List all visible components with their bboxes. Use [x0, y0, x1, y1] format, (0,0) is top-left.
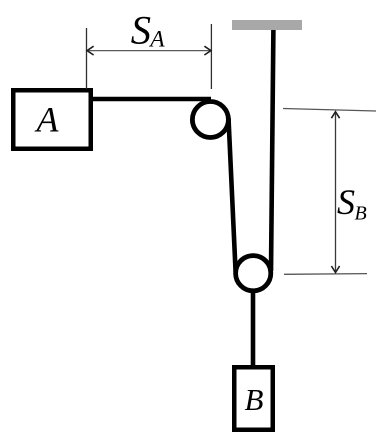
label S_B	[337, 182, 367, 225]
wire: rope from ceiling to lower pulley	[271, 30, 273, 271]
svg-text:S: S	[131, 8, 151, 53]
lower pulley	[236, 256, 271, 291]
svg-text:S: S	[337, 182, 355, 222]
svg-text:B: B	[245, 382, 264, 417]
dimension tick left (above block A)	[86, 28, 88, 89]
upper pulley	[192, 102, 228, 138]
wire: rope from lower pulley down to block B	[251, 290, 256, 367]
label S_A	[131, 8, 165, 53]
extension line bottom (for S_B)	[284, 273, 367, 276]
wire: rope from upper pulley down to lower pulley	[229, 118, 236, 272]
dimension tick right (above upper pulley)	[210, 24, 212, 89]
svg-text:B: B	[355, 203, 367, 225]
svg-text:A: A	[35, 100, 60, 140]
block A	[13, 90, 91, 149]
svg-text:A: A	[148, 26, 165, 52]
dimension arrow S_B (double-headed vertical)	[331, 112, 339, 273]
dimension arrow S_A (double-headed horizontal)	[87, 46, 211, 55]
fixed ceiling support	[232, 20, 302, 30]
extension line top (for S_B)	[283, 109, 376, 112]
wire: horizontal rope from block A to upper pulley	[90, 97, 211, 102]
block B	[234, 367, 273, 430]
